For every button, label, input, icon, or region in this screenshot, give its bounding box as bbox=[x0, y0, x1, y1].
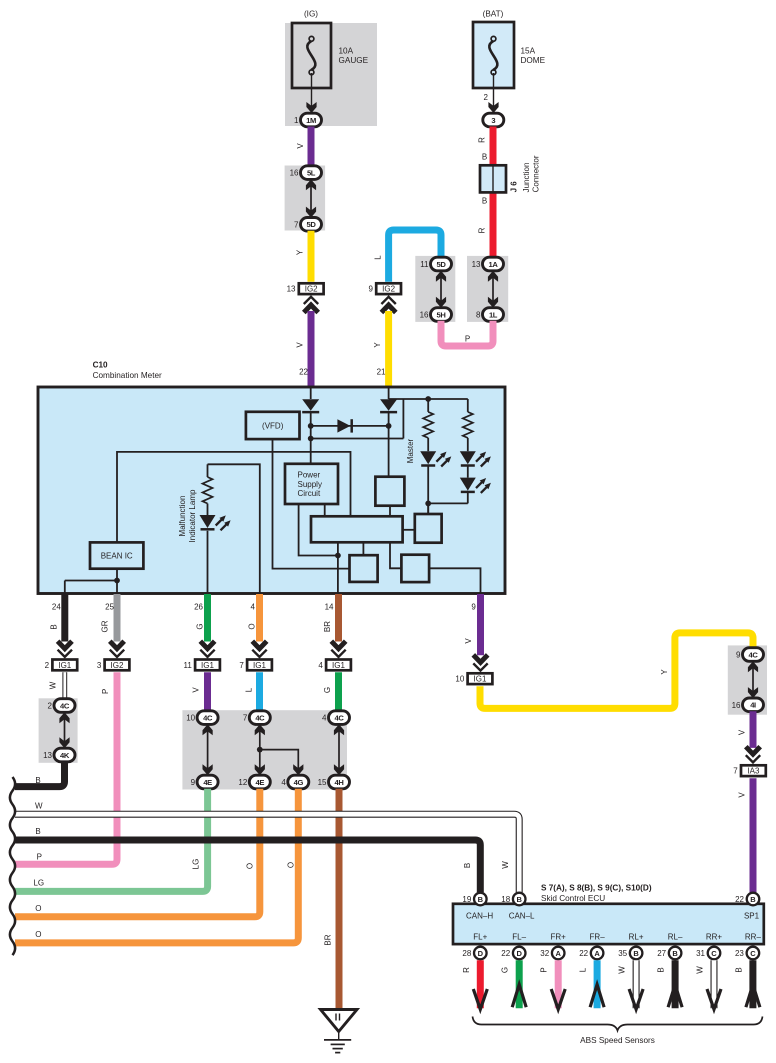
shading block 5L/5D connector bbox=[285, 166, 326, 231]
svg-text:4: 4 bbox=[322, 714, 327, 723]
svg-text:LG: LG bbox=[192, 859, 201, 870]
wire pin22 to diode bbox=[310, 387, 312, 399]
shading block behind GAUGE fuse bbox=[285, 23, 377, 126]
svg-text:1M: 1M bbox=[306, 116, 316, 125]
connector 4H pin 15 bbox=[318, 775, 350, 789]
svg-text:4G: 4G bbox=[294, 778, 304, 787]
wire O orange meter pin 4 bbox=[256, 594, 263, 642]
svg-text:4E: 4E bbox=[256, 778, 265, 787]
svg-text:(BAT): (BAT) bbox=[483, 10, 504, 19]
svg-text:Master: Master bbox=[406, 438, 415, 463]
wire fuse DOME pin 2 to connector 3 bbox=[493, 73, 495, 111]
svg-text:G: G bbox=[196, 623, 205, 629]
connector 4E pin 9 bbox=[191, 775, 218, 789]
svg-text:4H: 4H bbox=[335, 778, 344, 787]
svg-text:B: B bbox=[516, 895, 522, 904]
connector IG1 pin 11 bbox=[183, 660, 219, 671]
shading block 5D/5H connector bbox=[415, 256, 455, 322]
svg-text:B: B bbox=[35, 776, 40, 785]
wire B black meter pin 24 bbox=[61, 594, 68, 642]
svg-text:12: 12 bbox=[238, 778, 247, 787]
svg-text:Combination Meter: Combination Meter bbox=[93, 371, 162, 380]
connector IG1 pin 7 bbox=[239, 660, 272, 671]
shading block 1A/1L connector bbox=[467, 256, 508, 322]
svg-text:B: B bbox=[657, 967, 666, 972]
connector 4C pin 7 bbox=[243, 711, 270, 725]
block B3 bbox=[350, 555, 378, 582]
svg-text:27: 27 bbox=[657, 949, 666, 958]
svg-text:7: 7 bbox=[239, 661, 244, 670]
svg-text:GAUGE: GAUGE bbox=[339, 56, 369, 65]
svg-text:5D: 5D bbox=[437, 260, 447, 269]
svg-text:BR: BR bbox=[324, 934, 333, 945]
svg-text:GR: GR bbox=[101, 620, 110, 632]
connector IG2 pin 13 bbox=[287, 283, 324, 294]
svg-text:2: 2 bbox=[484, 93, 489, 102]
wire G ABS sensor bbox=[501, 960, 527, 1008]
svg-text:Supply: Supply bbox=[298, 480, 322, 489]
svg-text:O: O bbox=[246, 863, 255, 869]
svg-text:8: 8 bbox=[476, 311, 481, 320]
Skid Control ECU box bbox=[453, 904, 764, 944]
LED master chain 1 bbox=[420, 451, 436, 464]
wire pin21 to diode bbox=[388, 387, 390, 399]
connector IG1 pin 10 bbox=[455, 673, 492, 684]
svg-text:4: 4 bbox=[251, 603, 256, 612]
svg-text:7: 7 bbox=[733, 767, 738, 776]
connector 5L pin 16 bbox=[290, 166, 322, 180]
svg-text:22: 22 bbox=[299, 368, 308, 377]
svg-text:Circuit: Circuit bbox=[298, 489, 321, 498]
svg-text:DOME: DOME bbox=[521, 56, 546, 65]
svg-text:V: V bbox=[738, 792, 747, 798]
svg-text:4: 4 bbox=[318, 661, 323, 670]
wire L cyan IG1-7 to 4C-7 bbox=[256, 672, 263, 711]
svg-text:A: A bbox=[555, 949, 561, 958]
svg-text:BR: BR bbox=[323, 621, 332, 632]
wire B4 to pin 9 bbox=[429, 568, 480, 594]
svg-text:IA3: IA3 bbox=[747, 767, 760, 776]
wire fuse GAUGE to connector 1M bbox=[311, 73, 313, 111]
svg-text:C10: C10 bbox=[93, 361, 108, 370]
svg-text:V: V bbox=[296, 342, 305, 348]
wire VFD to block B3 bbox=[273, 439, 350, 568]
svg-text:RR+: RR+ bbox=[706, 933, 723, 942]
connector 1L pin 8 bbox=[476, 308, 503, 322]
combination meter box bbox=[38, 387, 505, 594]
junction arrows 4C-4 to 4H-15 bbox=[338, 725, 340, 774]
svg-text:4E: 4E bbox=[203, 778, 212, 787]
svg-text:18: 18 bbox=[501, 895, 510, 904]
svg-text:FR–: FR– bbox=[590, 933, 606, 942]
svg-text:P: P bbox=[37, 853, 42, 862]
svg-text:B: B bbox=[633, 949, 639, 958]
svg-text:CAN–L: CAN–L bbox=[509, 911, 535, 920]
svg-text:25: 25 bbox=[105, 603, 114, 612]
svg-text:Y: Y bbox=[660, 669, 669, 675]
svg-text:B: B bbox=[478, 895, 484, 904]
wire master chain 1 bbox=[427, 399, 429, 412]
svg-text:IG2: IG2 bbox=[382, 285, 395, 294]
wire main block to pin 14 bbox=[337, 542, 339, 594]
svg-text:3: 3 bbox=[97, 661, 102, 670]
junction arrows 4C-7 to 4E-12 and 4G-4 bbox=[255, 724, 304, 775]
svg-text:G: G bbox=[501, 967, 510, 973]
wire main block to B2 bbox=[403, 529, 415, 531]
svg-text:L: L bbox=[245, 687, 254, 692]
wire O orange 4E-12 to left bbox=[15, 789, 260, 917]
svg-text:1L: 1L bbox=[489, 310, 498, 319]
connector 3 bbox=[483, 113, 504, 127]
wire master to B2 bbox=[427, 503, 429, 514]
svg-text:19: 19 bbox=[462, 895, 471, 904]
svg-text:O: O bbox=[35, 930, 41, 939]
svg-text:(VFD): (VFD) bbox=[262, 421, 284, 430]
wire malfunction indicator lamp chain bbox=[207, 464, 209, 477]
svg-text:15: 15 bbox=[318, 778, 327, 787]
svg-text:IG1: IG1 bbox=[201, 661, 214, 670]
svg-text:10: 10 bbox=[186, 714, 195, 723]
svg-text:ABS Speed Sensors: ABS Speed Sensors bbox=[580, 1036, 655, 1045]
shading block 4C/4E/4G/4H connector bbox=[182, 710, 347, 789]
svg-text:FL+: FL+ bbox=[473, 933, 487, 942]
fuse 10A GAUGE bbox=[292, 10, 369, 89]
wire diode to block B1 bbox=[388, 413, 390, 477]
svg-text:IG1: IG1 bbox=[253, 661, 266, 670]
junction arrows 1A to 1L bbox=[492, 272, 494, 307]
wire B black harness to ECU CAN-H bbox=[15, 840, 480, 892]
wire VFD feed bbox=[311, 438, 404, 440]
svg-text:O: O bbox=[35, 904, 41, 913]
svg-text:B: B bbox=[35, 827, 40, 836]
resistor master chain 2 bbox=[463, 412, 473, 438]
wire BEAN IC top rail bbox=[117, 452, 351, 543]
wire W white harness to ECU CAN-L bbox=[15, 814, 519, 892]
svg-text:24: 24 bbox=[52, 603, 61, 612]
svg-text:O: O bbox=[287, 862, 296, 868]
svg-text:7: 7 bbox=[294, 220, 299, 229]
ECU pin 32 A bbox=[540, 947, 564, 960]
svg-text:O: O bbox=[248, 623, 257, 629]
wire master bottom rail bbox=[428, 502, 468, 504]
main block bbox=[311, 516, 403, 542]
diode at pin 22 bbox=[302, 399, 319, 411]
svg-text:23: 23 bbox=[735, 949, 744, 958]
svg-text:11: 11 bbox=[183, 661, 192, 670]
svg-text:10: 10 bbox=[455, 675, 464, 684]
svg-text:7: 7 bbox=[243, 714, 248, 723]
svg-text:RL+: RL+ bbox=[629, 933, 644, 942]
svg-text:R: R bbox=[478, 137, 487, 143]
svg-text:Skid Control ECU: Skid Control ECU bbox=[541, 894, 605, 903]
svg-text:L: L bbox=[579, 967, 588, 972]
svg-text:V: V bbox=[296, 143, 305, 149]
svg-text:16: 16 bbox=[732, 701, 741, 710]
connector IG2 pin 9 bbox=[368, 283, 401, 294]
wire LG light green 4E-9 to left bbox=[15, 789, 208, 892]
harness break squiggle bbox=[10, 777, 15, 955]
wire L cyan IG2-9 to 5D-11 bbox=[389, 230, 441, 282]
svg-text:35: 35 bbox=[618, 949, 627, 958]
svg-text:14: 14 bbox=[325, 603, 334, 612]
svg-text:RL–: RL– bbox=[668, 933, 683, 942]
ABS speed sensors brace bbox=[473, 1017, 763, 1031]
junction connector J6 bbox=[480, 155, 541, 192]
svg-text:C: C bbox=[750, 949, 756, 958]
ECU pin 31 C bbox=[696, 947, 720, 960]
svg-text:32: 32 bbox=[540, 949, 549, 958]
svg-text:Y: Y bbox=[373, 342, 382, 348]
svg-text:28: 28 bbox=[462, 949, 471, 958]
connector 5D pin 7 bbox=[294, 218, 321, 232]
svg-text:2: 2 bbox=[48, 702, 53, 711]
svg-text:Power: Power bbox=[298, 471, 321, 480]
wire master branch vertical bbox=[402, 399, 404, 439]
wire master chain 2 bbox=[467, 399, 469, 412]
wire P pink 5H to 1L bbox=[441, 321, 493, 346]
svg-text:3: 3 bbox=[491, 116, 495, 125]
connector 1M pin 1 bbox=[294, 113, 321, 127]
svg-text:B: B bbox=[482, 197, 487, 206]
wire Y yellow IG1-10 to 4C-9 bbox=[480, 633, 753, 709]
svg-text:10A: 10A bbox=[339, 47, 354, 56]
wire Y yellow 5D to IG2 bbox=[308, 231, 315, 282]
svg-text:IG1: IG1 bbox=[474, 675, 487, 684]
connector 4K pin 13 bbox=[43, 748, 75, 762]
svg-text:Malfunction: Malfunction bbox=[178, 496, 187, 537]
horizontal diode bbox=[337, 419, 350, 432]
wire V purple IG1-11 to 4C-10 bbox=[204, 672, 211, 711]
LED master chain 2 lower bbox=[460, 478, 476, 491]
svg-text:P: P bbox=[465, 335, 470, 344]
svg-text:13: 13 bbox=[472, 260, 481, 269]
svg-text:RR–: RR– bbox=[745, 933, 762, 942]
svg-text:R: R bbox=[478, 227, 487, 233]
wire Y yellow IG2 to meter pin 21 bbox=[385, 311, 392, 387]
ECU pin 27 B bbox=[657, 947, 681, 960]
wire O orange 4G-4 to left bbox=[15, 789, 298, 943]
svg-text:W: W bbox=[618, 966, 627, 974]
svg-text:9: 9 bbox=[471, 603, 476, 612]
shading block 4C/4K connector bbox=[39, 698, 78, 763]
svg-text:9: 9 bbox=[191, 778, 196, 787]
svg-text:B: B bbox=[750, 895, 756, 904]
svg-text:L: L bbox=[374, 255, 383, 260]
connector 4C pin 9 bbox=[736, 648, 763, 662]
connector 4I pin 16 bbox=[732, 698, 764, 712]
wire BR brown 4H-15 to ground bbox=[336, 789, 343, 1008]
chevron under IG2-13 bbox=[304, 305, 318, 313]
svg-text:LG: LG bbox=[33, 879, 44, 888]
diode at pin 21 bbox=[380, 399, 397, 411]
svg-text:W: W bbox=[696, 966, 705, 974]
junction arrows 4C to 4K bbox=[64, 713, 66, 747]
svg-text:4C: 4C bbox=[335, 714, 345, 723]
svg-text:SP1: SP1 bbox=[744, 911, 760, 920]
svg-text:R: R bbox=[462, 967, 471, 973]
resistor malfunction indicator lamp bbox=[203, 477, 213, 504]
svg-text:15A: 15A bbox=[521, 47, 536, 56]
svg-text:13: 13 bbox=[43, 751, 52, 760]
wire main block to B4 bbox=[390, 542, 401, 568]
junction dots inside meter bbox=[308, 423, 314, 429]
svg-text:2: 2 bbox=[45, 661, 50, 670]
svg-text:W: W bbox=[501, 861, 510, 869]
ECU pin 28 D bbox=[462, 947, 486, 960]
svg-text:4K: 4K bbox=[60, 751, 70, 760]
shading block 4C/4I connector bbox=[728, 645, 767, 714]
svg-text:J 6: J 6 bbox=[510, 181, 519, 193]
svg-text:22: 22 bbox=[501, 949, 510, 958]
junction arrows 5D to 5H bbox=[440, 272, 442, 307]
ECU pin 35 B bbox=[618, 947, 642, 960]
svg-text:Connector: Connector bbox=[532, 155, 541, 192]
svg-text:22: 22 bbox=[735, 895, 744, 904]
svg-text:5H: 5H bbox=[437, 310, 446, 319]
connector 4C pin 4 bbox=[322, 711, 349, 725]
connector 4C pin 2 bbox=[48, 699, 75, 713]
connector IG1 pin 4 bbox=[318, 660, 351, 671]
junction arrows 5L to 5D bbox=[310, 180, 312, 216]
svg-text:22: 22 bbox=[579, 949, 588, 958]
svg-text:16: 16 bbox=[290, 169, 299, 178]
wire B ABS sensor bbox=[734, 960, 760, 1008]
ECU pin 18 CAN-L bbox=[501, 893, 525, 906]
fuse 15A DOME bbox=[473, 10, 546, 89]
svg-text:P: P bbox=[101, 689, 110, 694]
svg-text:B: B bbox=[672, 949, 678, 958]
wire horizontal diode row bbox=[311, 425, 389, 427]
svg-text:B: B bbox=[734, 967, 743, 972]
svg-text:S 7(A), S 8(B), S 9(C), S10(D): S 7(A), S 8(B), S 9(C), S10(D) bbox=[541, 883, 652, 892]
svg-text:P: P bbox=[540, 967, 549, 972]
BEAN IC box bbox=[90, 542, 143, 568]
wire V purple 1M to 5L bbox=[308, 127, 315, 167]
wire P ABS sensor bbox=[540, 960, 566, 1009]
junction arrows 4C-9 to 4I-16 bbox=[752, 662, 754, 697]
svg-text:9: 9 bbox=[368, 285, 373, 294]
wire R ABS sensor bbox=[462, 960, 488, 1009]
connector IG1 pin 2 bbox=[45, 660, 78, 671]
svg-text:4I: 4I bbox=[750, 701, 756, 710]
svg-text:D: D bbox=[478, 949, 484, 958]
svg-text:D: D bbox=[516, 949, 522, 958]
chevron under IG2-9 bbox=[381, 305, 395, 313]
svg-text:16: 16 bbox=[420, 311, 429, 320]
LED master chain 2 upper bbox=[460, 451, 476, 464]
wire BR brown meter pin 14 bbox=[335, 594, 342, 642]
wire G green meter pin 26 bbox=[204, 594, 211, 642]
svg-text:4C: 4C bbox=[749, 650, 759, 659]
wire main block to B3 bbox=[362, 542, 364, 555]
wire master top rail bbox=[389, 398, 468, 400]
VFD box bbox=[246, 412, 300, 439]
svg-text:A: A bbox=[594, 949, 600, 958]
wire G green IG1-4 to 4C-4 bbox=[335, 672, 342, 711]
svg-text:Indicator Lamp: Indicator Lamp bbox=[188, 489, 197, 542]
svg-text:26: 26 bbox=[194, 603, 203, 612]
svg-text:V: V bbox=[464, 638, 473, 644]
ECU pin 22 A bbox=[579, 947, 603, 960]
svg-text:5L: 5L bbox=[307, 169, 316, 178]
wire R red connector 3 to 1A via J6 bbox=[490, 127, 497, 258]
svg-text:4C: 4C bbox=[203, 714, 213, 723]
svg-text:9: 9 bbox=[736, 651, 741, 660]
wire GR gray meter pin 25 bbox=[114, 594, 121, 642]
Power Supply Circuit box bbox=[285, 464, 338, 504]
connector 4C pin 10 bbox=[186, 711, 218, 725]
wire PSC bottom left bbox=[299, 504, 338, 556]
svg-text:FR+: FR+ bbox=[551, 933, 567, 942]
svg-text:G: G bbox=[323, 687, 332, 693]
ECU pin 23 C bbox=[735, 947, 759, 960]
svg-text:C: C bbox=[711, 949, 717, 958]
wire B ABS sensor bbox=[657, 960, 683, 1008]
svg-text:(IG): (IG) bbox=[304, 10, 318, 19]
wire B black 4K to left bbox=[15, 762, 65, 787]
svg-text:1: 1 bbox=[294, 116, 299, 125]
svg-text:IG1: IG1 bbox=[332, 661, 345, 670]
wire B1 to main block bbox=[389, 506, 391, 517]
connector IG2 pin 3 bbox=[97, 660, 130, 671]
LED malfunction indicator lamp bbox=[200, 515, 216, 528]
svg-text:BEAN IC: BEAN IC bbox=[101, 552, 133, 561]
ECU pin 19 CAN-H bbox=[462, 893, 486, 906]
svg-text:V: V bbox=[192, 687, 201, 693]
svg-text:B: B bbox=[482, 153, 487, 162]
resistor master chain 1 bbox=[423, 412, 433, 438]
svg-text:IG2: IG2 bbox=[305, 285, 318, 294]
svg-text:31: 31 bbox=[696, 949, 705, 958]
svg-text:FL–: FL– bbox=[512, 933, 526, 942]
wire V purple IG2 to meter pin 22 bbox=[308, 311, 315, 387]
ground symbol bbox=[321, 1010, 358, 1053]
wire V purple IA3 to ECU pin 22 bbox=[750, 778, 757, 892]
connector 5D pin 11 bbox=[420, 257, 451, 271]
ECU pin 22 SP1 bbox=[735, 893, 759, 906]
connector 4G pin 4 bbox=[281, 775, 308, 789]
svg-text:Junction: Junction bbox=[522, 163, 531, 193]
svg-text:B: B bbox=[50, 624, 59, 629]
wire P pink IG2-3 to left bbox=[15, 672, 117, 864]
connector 5H pin 16 bbox=[420, 308, 452, 322]
wire W ABS sensor bbox=[696, 960, 722, 1009]
junction arrows 4C-10 to 4E-9 bbox=[207, 725, 209, 774]
svg-text:11: 11 bbox=[420, 260, 429, 269]
svg-text:5D: 5D bbox=[307, 220, 317, 229]
connector IA3 pin 7 bbox=[733, 765, 766, 776]
wire W white IG1-2 to 4C-2 bbox=[62, 672, 67, 699]
svg-text:W: W bbox=[35, 802, 43, 811]
wire PSC to main block bbox=[324, 504, 326, 516]
wire diode to power supply circuit bbox=[310, 413, 312, 464]
svg-text:V: V bbox=[738, 729, 747, 735]
svg-text:1A: 1A bbox=[489, 260, 499, 269]
svg-text:4C: 4C bbox=[255, 714, 265, 723]
svg-text:W: W bbox=[49, 681, 58, 689]
block B1 bbox=[375, 477, 404, 506]
block B4 bbox=[401, 555, 429, 582]
wire L ABS sensor bbox=[579, 960, 605, 1008]
connector 4E pin 12 bbox=[238, 775, 270, 789]
wire V purple 4I to IA3 bbox=[750, 711, 757, 748]
svg-text:IG2: IG2 bbox=[111, 661, 124, 670]
wire BEAN IC to pins 24/25 bbox=[116, 569, 118, 594]
svg-text:CAN–H: CAN–H bbox=[466, 911, 493, 920]
ECU pin 22 D bbox=[501, 947, 525, 960]
svg-text:4C: 4C bbox=[60, 701, 70, 710]
wire W ABS sensor bbox=[618, 960, 644, 1009]
